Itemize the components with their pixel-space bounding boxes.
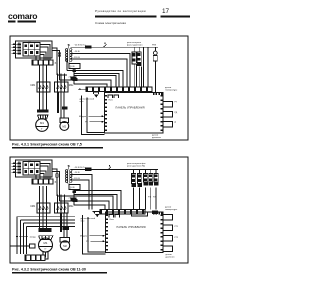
wires KM1 to M1 (39, 92, 41, 110)
svg-text:реле давления РД: реле давления РД (127, 166, 145, 168)
svg-text:М1: М1 (44, 241, 48, 245)
header rule right (161, 15, 191, 17)
motor M2 fan (60, 241, 69, 250)
panel left terminals (105, 95, 107, 131)
wires KM2 to M2 (57, 92, 59, 113)
contactor KM1 (37, 82, 50, 92)
caption rule 2 (12, 272, 107, 273)
fuse FU3 on control line (85, 45, 92, 48)
svg-text:comaro: comaro (8, 11, 37, 21)
wire transformer down (73, 190, 75, 206)
svg-text:М1: М1 (40, 121, 44, 125)
svg-text:КМ2: КМ2 (69, 205, 74, 208)
wires M1 to bottom strip (30, 252, 43, 255)
terminal strip X1 (32, 179, 53, 184)
svg-text:РКФ: РКФ (152, 44, 157, 47)
fan box (60, 238, 70, 243)
enclosure box (input breaker box) (16, 160, 53, 177)
contactor KM2 (55, 203, 69, 213)
wire arrow into strip (78, 88, 86, 90)
svg-text:3~: 3~ (44, 249, 47, 251)
wire 24V control line (71, 46, 158, 48)
relay K1 (132, 52, 136, 64)
svg-text:КМ1: КМ1 (31, 205, 36, 208)
wire 24V control line (71, 169, 158, 171)
svg-text:17: 17 (162, 8, 170, 15)
svg-text:Модем: Модем (79, 116, 87, 118)
header rule left (95, 15, 157, 17)
black connector at strip right (152, 211, 158, 215)
wire enclosure to transformer (52, 48, 57, 75)
enclosure box (input breaker box) (16, 41, 53, 58)
svg-text:фаз и давления: фаз и давления (127, 44, 142, 47)
aux box under transformer (69, 185, 80, 190)
svg-text:Рис. 4.3.1 Электрическая схема: Рис. 4.3.1 Электрическая схема ОВ 7,5 (12, 142, 82, 146)
funnel M1 (39, 236, 53, 240)
terminal strip X2 (100, 210, 145, 215)
fan box (60, 118, 69, 123)
thermal relay KK2 (62, 107, 68, 110)
wires along panel left bottom (83, 215, 106, 254)
fuse column FU (18, 163, 21, 165)
svg-text:Руководство по эксплуатации: Руководство по эксплуатации (95, 9, 146, 13)
terminal strip X3 (25, 255, 45, 261)
svg-text:Схема электрическая: Схема электрическая (95, 21, 126, 25)
control panel box (106, 212, 164, 253)
inline fuse on left feeder (56, 174, 58, 178)
switch SA (108, 167, 111, 170)
svg-text:X1: X1 (55, 180, 59, 184)
svg-text:~24 B 50 Гц: ~24 B 50 Гц (74, 45, 87, 47)
svg-text:РТ: РТ (175, 102, 178, 104)
caption rule 1 (12, 147, 103, 148)
svg-text:температуры: температуры (165, 209, 178, 211)
lamp HL (153, 51, 157, 55)
motor M1 (39, 238, 53, 252)
star-delta bus wires (17, 216, 75, 218)
input stubs L1 L2 L3 N (12, 162, 18, 164)
svg-text:РТ1: РТ1 (175, 226, 179, 228)
svg-text:ПАНЕЛЬ УПРАВЛЕНИЯ: ПАНЕЛЬ УПРАВЛЕНИЯ (116, 107, 145, 110)
pressure sensor loops (163, 102, 173, 108)
svg-text:температуры: температуры (165, 90, 178, 92)
relay K2 (137, 52, 141, 63)
inline fuse on left feeder (58, 53, 60, 56)
panel top notch (132, 212, 148, 216)
schematic border frame S2 (10, 157, 188, 263)
svg-text:звезда: звезда (30, 237, 37, 239)
terminal strip X2 (86, 87, 152, 92)
jumper inside panel (108, 95, 113, 98)
svg-text:ПАНЕЛЬ УПРАВЛЕНИЯ: ПАНЕЛЬ УПРАВЛЕНИЯ (117, 226, 146, 229)
relay bank K1-K5 (132, 174, 136, 184)
svg-text:КМ1: КМ1 (31, 84, 36, 87)
thermal relay KK1 (39, 228, 52, 232)
wires strip to KM1 (39, 186, 41, 203)
panel right terminals (160, 95, 162, 131)
panel top terminals (153, 93, 163, 95)
remote start contact (94, 92, 99, 94)
wires along panel left bottom (82, 96, 105, 135)
wires to KM2 (57, 74, 59, 83)
fuse FU5 (73, 199, 78, 202)
fuse FU5 (73, 78, 78, 81)
wires KM2 to M2 (60, 213, 62, 232)
terminal strip X1 (32, 60, 53, 65)
svg-text:давления: давления (152, 137, 161, 139)
input stubs L1 L2 L3 N (12, 43, 18, 45)
contactor KM1 (37, 203, 50, 213)
motor M2 fan (60, 122, 69, 131)
wire transformer down (73, 69, 75, 85)
fuse FU4 (73, 70, 77, 73)
fuse FU4 (73, 191, 77, 194)
svg-text:~24 B 50 Гц: ~24 B 50 Гц (74, 167, 87, 169)
pressure sensor loops (163, 215, 173, 221)
aux box under transformer (69, 64, 80, 69)
jumper inside panel (109, 215, 114, 218)
svg-text:М2: М2 (62, 124, 66, 128)
wires strip to KM1 (39, 65, 41, 82)
svg-text:Реле: Реле (109, 100, 113, 102)
svg-text:давления: давления (166, 257, 175, 259)
wires to KM2 (57, 195, 59, 204)
svg-text:КМ2: КМ2 (69, 84, 74, 87)
wires from breaker to terminal strip (40, 164, 50, 180)
fuse on KM2 feed (71, 77, 77, 80)
svg-text:Д: Д (175, 122, 177, 124)
svg-text:РД: РД (175, 112, 178, 114)
wire arrow into strip (92, 211, 100, 213)
motor M1 (36, 119, 49, 132)
circuit breaker QF grid (23, 162, 40, 176)
svg-text:РТ2: РТ2 (175, 237, 179, 239)
circuit breaker QF grid (23, 43, 40, 57)
funnel M1 (38, 115, 49, 119)
fuse on KM2 feed (71, 198, 77, 201)
fuse FU3 on control line (85, 168, 92, 171)
bus and feeder wires with bridge routing (74, 191, 121, 210)
svg-text:Рис. 4.3.2 Электрическая схема: Рис. 4.3.2 Электрическая схема ОВ 11-30 (12, 267, 86, 271)
wires from breaker to terminal strip (40, 45, 50, 61)
control panel box (105, 93, 164, 134)
sensor box left of M1 (30, 244, 36, 248)
switch SA (104, 44, 107, 47)
schematic border frame S1 (10, 36, 188, 140)
svg-text:Реле: Реле (110, 219, 114, 221)
fuse column FU (18, 44, 21, 46)
wires KM1 to M1 (39, 213, 41, 228)
wire enclosure to transformer (52, 169, 57, 196)
remote start contact (95, 212, 100, 214)
panel left terminals (106, 215, 108, 251)
junction dots (16, 236, 18, 238)
contactor KM2 (55, 82, 69, 92)
thermal relay KK2 (63, 227, 70, 230)
bus and feeder wires with bridge routing (74, 74, 119, 88)
svg-text:Модем: Модем (80, 236, 88, 238)
wires relays to line/strip (133, 47, 135, 52)
svg-text:М2: М2 (63, 244, 67, 248)
svg-text:X1: X1 (55, 61, 59, 65)
svg-text:3~: 3~ (41, 128, 44, 130)
thermal relay KK1 (37, 110, 49, 113)
svg-text:реле контроля фаз: реле контроля фаз (127, 162, 145, 165)
panel right terminals (160, 215, 162, 251)
panel top terminals (153, 212, 163, 214)
